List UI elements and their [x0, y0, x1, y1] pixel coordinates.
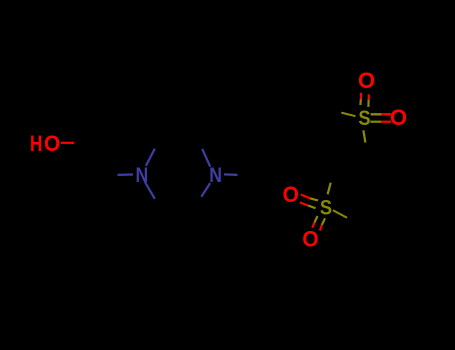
double bond S2=O4 left line olive half [315, 216, 318, 223]
double bond S2=O4 right line olive half [322, 218, 325, 225]
double bond S1=O1 right line red half [368, 94, 370, 99]
svg-text:O: O [390, 105, 407, 130]
bond N1-C4 blue half (lower-right ring stub of N1) [145, 182, 155, 199]
svg-text:O: O [44, 130, 60, 156]
bond N1-C3 blue half (upper-right ring stub of N1) [146, 149, 155, 166]
bond O-C1 red half (from hydroxyl O) [61, 142, 74, 144]
bond S2-CH3 olive half (right methyl stub of S2) [333, 210, 347, 218]
bond N2-C6 blue half (lower-left ring stub of N2) [201, 183, 210, 197]
bond S2-C8 olive half (up stub of S2) [328, 183, 331, 195]
double bond S1=O2 top line olive half [371, 113, 382, 115]
bond N2-C5 blue half (upper-left ring stub of N2) [202, 149, 210, 167]
double bond S2=O4 left line red half [312, 223, 314, 228]
svg-text:O: O [302, 227, 318, 252]
double bond O3=S2 lower line olive half [308, 206, 316, 209]
bond S1-C8 olive half (down stub of S1) [363, 130, 365, 142]
bond S1-CH3 olive half (left methyl stub of S1) [341, 113, 355, 117]
svg-text:O: O [358, 68, 375, 93]
svg-text:N: N [209, 163, 222, 187]
bond N2-C7 blue half (right stub of N2) [224, 173, 238, 176]
double bond O3=S2 upper line olive half [310, 198, 318, 200]
svg-text:H: H [30, 132, 42, 157]
double bond S2=O4 right line red half [320, 225, 322, 231]
double bond S1=O2 bottom line olive half [370, 121, 381, 123]
svg-text:S: S [358, 107, 370, 131]
bond C2-N1 blue half (left stub of N1) [118, 173, 134, 176]
double bond O3=S2 lower line red half [300, 202, 308, 205]
double bond O3=S2 upper line red half [301, 195, 310, 199]
svg-text:O: O [283, 183, 299, 208]
double bond S1=O2 bottom line red half [381, 121, 391, 123]
double bond S1=O2 top line red half [381, 113, 391, 115]
double bond S1=O1 right line olive half [367, 100, 369, 107]
svg-text:S: S [320, 196, 332, 220]
double bond S1=O1 left line red half [360, 93, 362, 99]
double bond S1=O1 left line olive half [359, 99, 362, 105]
